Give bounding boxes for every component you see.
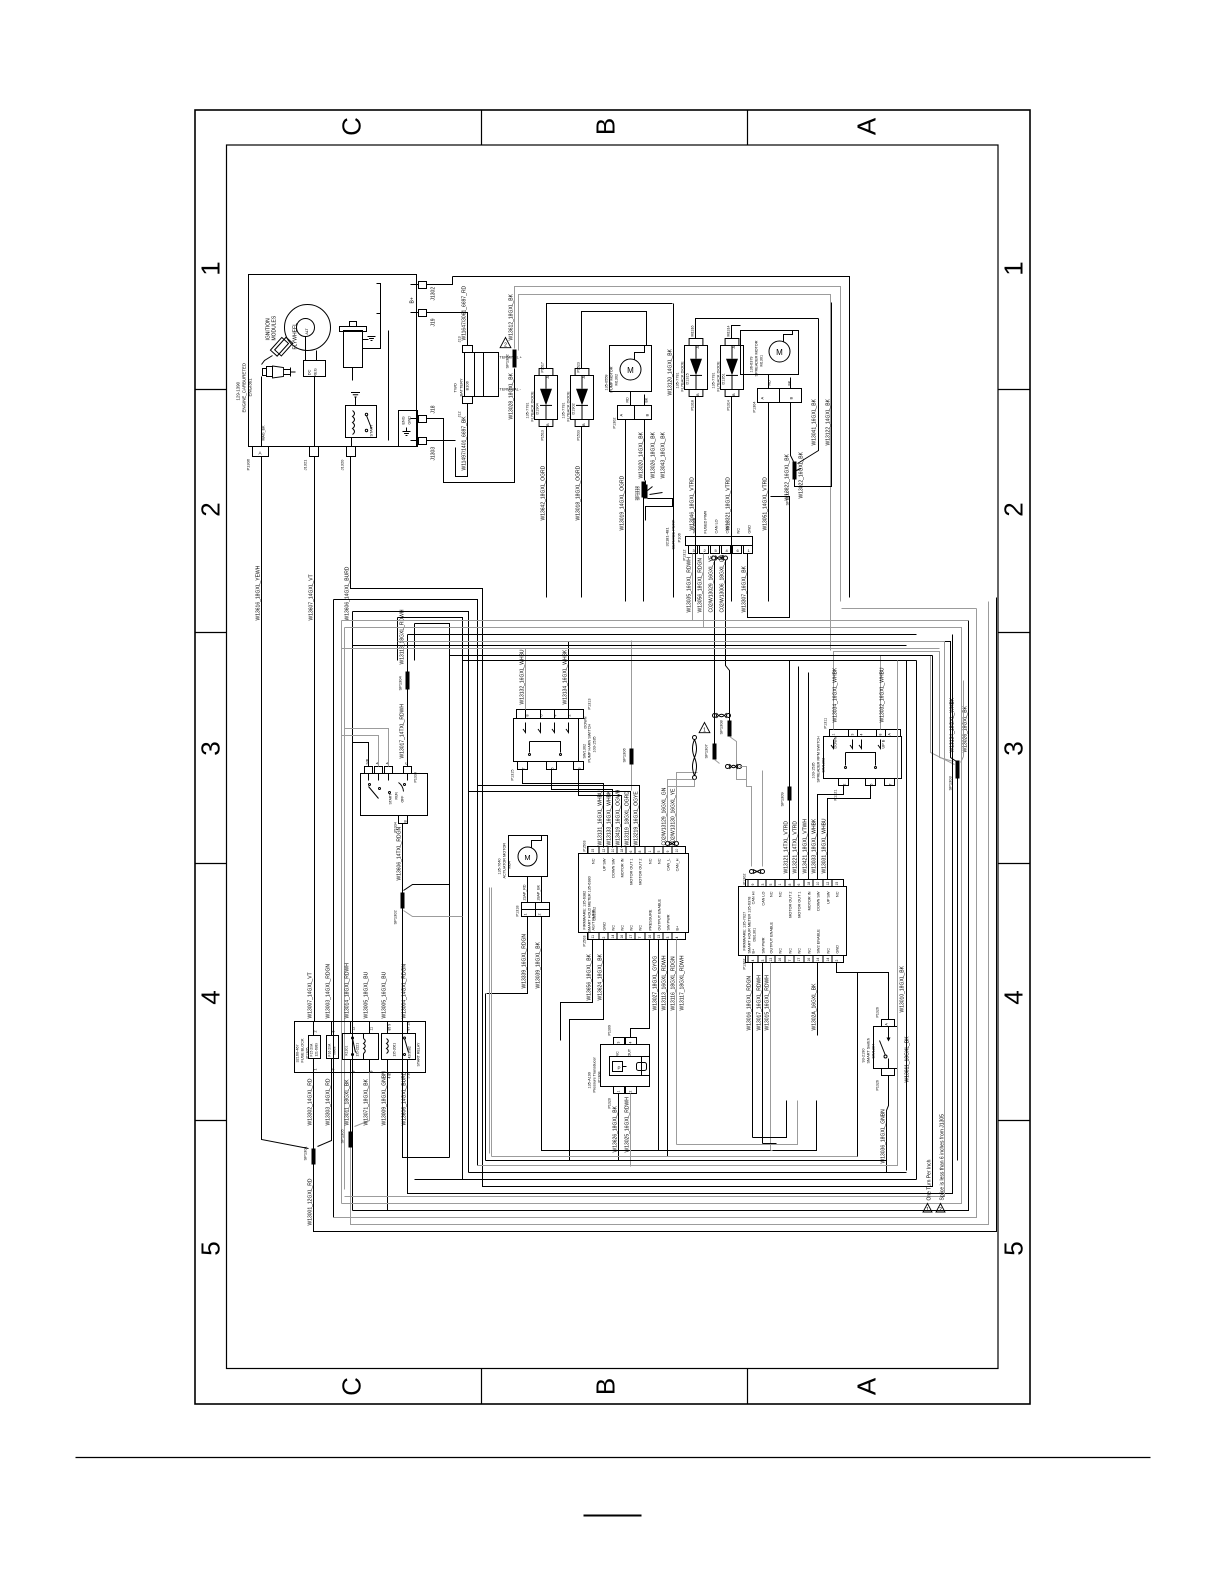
svg-text:W13607_14GXL_VT: W13607_14GXL_VT: [309, 574, 315, 620]
svg-text:16: 16: [807, 958, 811, 962]
svg-text:10: 10: [816, 882, 820, 886]
svg-text:W13071_18GXL_BK: W13071_18GXL_BK: [364, 1078, 370, 1125]
wire fuse2 down W13303_14GXL_RD to SP1301: [318, 1073, 332, 1147]
svg-text:5: 5: [551, 768, 555, 770]
svg-text:5: 5: [870, 784, 874, 786]
svg-text:7: 7: [788, 960, 792, 962]
svg-text:SP1303: SP1303: [948, 775, 953, 790]
svg-text:5: 5: [769, 884, 773, 886]
bus wire right vertical x976 gray: [334, 609, 977, 1218]
svg-text:3: 3: [851, 734, 855, 736]
wire below SP1311 loop W13122_14GXL_BK: [795, 303, 832, 487]
svg-text:129-1390: 129-1390: [236, 381, 241, 400]
splice SP1308: [728, 721, 732, 737]
svg-text:DOWN: DOWN: [834, 736, 838, 748]
svg-text:RUN: RUN: [395, 792, 399, 800]
svg-text:W13007_14GXL_VT: W13007_14GXL_VT: [308, 972, 314, 1018]
svg-text:135-7791: 135-7791: [562, 402, 566, 418]
svg-text:D1904: D1904: [536, 403, 540, 414]
svg-text:A: A: [581, 376, 586, 379]
flywheel circle: [285, 305, 331, 351]
SW1302 internal contacts: [523, 723, 526, 733]
wire SW1302 pin2 up W13134_16GXL_WHBK: [569, 642, 957, 762]
wire engine W13607_14GXL_VT down to fuse: [314, 457, 316, 1022]
bus wire black mid y645: [353, 645, 907, 647]
splice SP1302 on ignition switch feed: [401, 893, 405, 909]
wire SW1303 pin5 down to DB1301 UP SW: [828, 786, 871, 880]
svg-text:14: 14: [816, 958, 820, 962]
ignition switch top pins: [365, 767, 373, 774]
wire SW1303 pin8 up W13032_16GXL_WHBU: [881, 656, 955, 765]
bus wire black mid y660: [463, 660, 917, 662]
svg-text:M1316: M1316: [691, 326, 695, 337]
flyback diode D1902: [571, 376, 594, 420]
splice SP1307: [713, 744, 717, 760]
bus wire black mid y648: [415, 648, 940, 650]
svg-text:P1318: P1318: [516, 906, 520, 917]
twisted pair symbol small lower: [726, 765, 730, 769]
svg-text:MOTOR OUT 1: MOTOR OUT 1: [630, 859, 634, 885]
svg-text:W11647/3061_6697_RD: W11647/3061_6697_RD: [462, 285, 468, 340]
wire J18 engine ground down: [427, 369, 515, 483]
svg-text:C02/W13129_16GXL_GN: C02/W13129_16GXL_GN: [662, 787, 668, 845]
flyback diode D1904: [535, 376, 558, 420]
drawing sheet inner border: [227, 145, 999, 1369]
svg-text:D1315: D1315: [686, 373, 690, 384]
wire DB1302 B+ down W13116_18GXL_RDGN: [676, 940, 678, 1145]
fuse F15 20A: [309, 1036, 321, 1059]
svg-text:P1318: P1318: [691, 400, 695, 410]
svg-text:W13039_18GXL_BK: W13039_18GXL_BK: [536, 941, 542, 988]
svg-text:4: 4: [675, 937, 679, 939]
wire K1301 pin8 down W13011_18GXL_BK: [350, 1073, 352, 1132]
svg-text:SP1305: SP1305: [340, 1128, 345, 1143]
wire ignition module to spark plug and pin: [262, 356, 273, 365]
svg-text:Pressure Transducer: Pressure Transducer: [593, 1057, 597, 1093]
svg-text:16: 16: [778, 958, 782, 962]
svg-text:136-6379: 136-6379: [750, 356, 754, 372]
svg-text:OUTPUT ENABLE: OUTPUT ENABLE: [770, 921, 774, 953]
svg-text:W13051_14GXL_VTRD: W13051_14GXL_VTRD: [763, 477, 769, 531]
fuse block P1305 outline: [295, 1022, 426, 1073]
svg-text:C02/W13130_16GXL_YE: C02/W13130_16GXL_YE: [671, 788, 677, 846]
wire P1302-B down W13020_14GXL_BK: [644, 420, 646, 481]
svg-text:W13011_18GXL_BK: W13011_18GXL_BK: [345, 1079, 351, 1126]
svg-text:28AP_BK: 28AP_BK: [537, 884, 541, 900]
svg-text:13: 13: [769, 958, 773, 962]
splice SP1309: [788, 787, 792, 801]
wire DB1301 GND to SW1304 W13010_18GXL_BK: [837, 963, 889, 1020]
svg-text:M04: M04: [508, 861, 512, 868]
svg-text:5: 5: [999, 1241, 1029, 1255]
svg-text:32160-467: 32160-467: [296, 1044, 300, 1062]
ignition switch bottom pin M: [399, 816, 408, 824]
svg-text:W13302_14GXL_RD: W13302_14GXL_RD: [308, 1078, 314, 1125]
wire below SP1301 W13001_12GXL_RD: [314, 598, 997, 1232]
svg-text:NC: NC: [612, 925, 616, 931]
svg-text:9: 9: [370, 1071, 374, 1073]
svg-text:SW PWR: SW PWR: [667, 914, 671, 930]
wire start relay pin5 down W13606_14GXL_BURD: [408, 635, 953, 1194]
svg-text:W13134_16GXL_WHBK: W13134_16GXL_WHBK: [563, 649, 569, 704]
svg-text:B+: B+: [410, 297, 416, 303]
svg-text:K1301: K1301: [345, 1046, 349, 1056]
svg-text:P1315: P1315: [511, 770, 515, 781]
svg-text:2: 2: [939, 1207, 942, 1213]
wire D1351 anode up: [732, 326, 741, 339]
svg-text:6: 6: [540, 715, 544, 717]
svg-text:3: 3: [761, 884, 765, 886]
svg-text:135-7640: 135-7640: [498, 858, 502, 874]
svg-text:TERMINAL +: TERMINAL +: [500, 356, 523, 360]
svg-text:A: A: [731, 346, 736, 349]
svg-text:SMART Switch: SMART Switch: [867, 1038, 871, 1063]
svg-text:GND: GND: [748, 525, 752, 534]
svg-text:B: B: [789, 397, 794, 400]
svg-text:M: M: [776, 348, 783, 357]
svg-text:SP1308: SP1308: [719, 719, 724, 734]
wire P1318-2 down W13039_18GXL_BK: [542, 917, 641, 1151]
pump motor M1302: [610, 346, 652, 392]
svg-text:W13626_18GXL_BK: W13626_18GXL_BK: [613, 1105, 619, 1152]
wire W13022_16GXL_BK at SP1311: [797, 469, 801, 471]
SW1303 internal contacts: [831, 740, 834, 749]
svg-text:B+: B+: [676, 925, 680, 931]
svg-text:P1517: P1517: [541, 362, 545, 372]
svg-text:4: 4: [999, 990, 1029, 1004]
bus wire gray mid y620: [342, 620, 969, 622]
footer page dash: [584, 1515, 642, 1517]
svg-text:P106: P106: [677, 532, 682, 542]
svg-text:7: 7: [889, 784, 893, 786]
wire J1303 down: [427, 440, 456, 442]
svg-text:4: 4: [860, 734, 864, 736]
svg-text:J1321: J1321: [303, 459, 308, 471]
ground symbol above start solenoid: [351, 392, 360, 394]
wire DB1302 pin11 down W13656_18GXL_BK: [561, 940, 593, 1041]
svg-text:W13043_18GXL_BK: W13043_18GXL_BK: [661, 431, 667, 478]
wire SP1302 second branch: [519, 295, 831, 651]
svg-text:4: 4: [629, 1042, 633, 1044]
SW1302 top pin row: [517, 710, 584, 719]
svg-text:A: A: [619, 414, 624, 417]
wire D1904 cathode down W13642_18GXL_OGRD: [546, 427, 548, 598]
smart switch SW1304 box: [874, 1027, 898, 1069]
wire engine W13616_18GXL_YEWH down to SP1301: [262, 457, 309, 1149]
svg-text:17: 17: [629, 935, 633, 939]
svg-text:ALT: ALT: [305, 328, 309, 335]
splice SP1316 and loop: [644, 485, 648, 499]
svg-text:5: 5: [196, 1241, 226, 1255]
svg-text:SW1303: SW1303: [822, 758, 826, 773]
svg-text:W13041_16GXL_BK: W13041_16GXL_BK: [812, 398, 818, 445]
wire P1318-1 down W13339_16GXL_RDGN: [487, 917, 528, 994]
svg-text:W13011_18GXL_BK: W13011_18GXL_BK: [905, 1036, 911, 1083]
svg-text:7: 7: [522, 768, 526, 770]
svg-text:4: 4: [554, 715, 558, 717]
svg-text:12: 12: [352, 1027, 356, 1031]
svg-text:135-7791: 135-7791: [676, 372, 680, 388]
actuator motor wires to connector: [527, 877, 529, 903]
svg-text:C: C: [337, 1377, 367, 1396]
svg-text:6: 6: [629, 851, 633, 853]
svg-text:BATTERY: BATTERY: [459, 378, 464, 396]
DB1301 top pin row: [746, 880, 844, 887]
svg-text:A: A: [852, 117, 882, 135]
wire to SP1304 W13113_18GXL_RDWH: [407, 635, 409, 672]
wire DB1302 SW PWR down W13113_16GXL_RDWH: [667, 940, 669, 1157]
svg-text:18: 18: [807, 882, 811, 886]
svg-text:W13005_16GXL_BU: W13005_16GXL_BU: [382, 971, 388, 1018]
svg-text:PUMP HARN SWITCH: PUMP HARN SWITCH: [588, 723, 592, 762]
svg-text:14: 14: [611, 935, 615, 939]
svg-text:GND: GND: [603, 922, 607, 931]
wire D1902 anode to bus y311: [582, 312, 647, 369]
svg-text:W13612_18GXL_BK: W13612_18GXL_BK: [509, 293, 515, 340]
svg-text:1: 1: [778, 884, 782, 886]
wire DB1302 MOTOR OUT 1 up W13119_18GXL_OGRD: [469, 792, 631, 847]
svg-text:B: B: [731, 393, 736, 396]
svg-text:CAN_H: CAN_H: [676, 858, 680, 871]
svg-text:C: C: [337, 117, 367, 136]
SW1303 bottom pins: [839, 779, 849, 786]
bus wire gray mid y627: [342, 628, 962, 1204]
ignition switch box: [361, 774, 428, 816]
svg-text:135-0559: 135-0559: [605, 374, 609, 390]
flyback diode D1315: [685, 346, 708, 390]
svg-text:W13219_16GXL_OGYE: W13219_16GXL_OGYE: [634, 791, 640, 846]
svg-text:NC: NC: [779, 948, 783, 954]
wire engine W13606_14GXL_BURD down and right: [351, 457, 933, 1187]
svg-text:Splice is less than 6 inches f: Splice is less than 6 inches from J1305: [940, 1114, 946, 1201]
svg-text:W13003_14GXL_RDGN: W13003_14GXL_RDGN: [326, 964, 332, 1019]
splice SP1306: [630, 749, 634, 765]
svg-text:2: 2: [999, 502, 1029, 516]
svg-text:NC: NC: [827, 948, 831, 954]
svg-text:MOTOR IN: MOTOR IN: [808, 891, 812, 910]
warning triangle 1 CAN harness: [699, 723, 710, 733]
svg-text:1: 1: [926, 1207, 929, 1213]
svg-text:3: 3: [196, 741, 226, 755]
svg-text:NC: NC: [592, 858, 596, 864]
wire SW1303 pin1 up W13034_16GXL_WHBK: [834, 652, 954, 762]
wire SW1302 pin7 to DB1302 W13131_16GXL_WHBU: [523, 770, 604, 848]
svg-text:10: 10: [611, 849, 615, 853]
svg-text:A: A: [259, 451, 262, 456]
DB1302 CAN_L CAN_H bubbles and twist: [666, 842, 670, 846]
wire start solenoid to J1320: [351, 438, 353, 447]
svg-text:A: A: [695, 346, 700, 349]
actuator connector P1318: [522, 903, 550, 917]
bus wire gray mid y641: [345, 642, 945, 1197]
svg-text:M: M: [627, 366, 634, 375]
wire bundle nest second: [353, 612, 469, 1173]
bus bottom gray y1156: [492, 1156, 858, 1158]
wire DB1302 MOTOR OUT 2 up W13219_16GXL_OGYE: [478, 786, 640, 847]
svg-text:B106: B106: [465, 380, 470, 390]
grid tick row divider left y1120: [195, 1120, 227, 1122]
wire P1308 pin2 down W13025_16GXL_RDWH: [630, 1094, 632, 1167]
P1308 internals: [610, 1057, 650, 1076]
splice SP1305: [349, 1132, 353, 1148]
engine bottom pin J1320: [347, 447, 356, 457]
wires ignition top pins into nest: [353, 743, 369, 767]
svg-text:PRESSURE: PRESSURE: [649, 909, 653, 930]
svg-text:135-2221: 135-2221: [356, 1043, 360, 1057]
svg-text:1: 1: [832, 734, 836, 736]
svg-text:FLYWHEEL: FLYWHEEL: [293, 323, 299, 350]
svg-text:W13035_16GXL_RDWH: W13035_16GXL_RDWH: [687, 557, 693, 613]
svg-text:CAN HI: CAN HI: [752, 892, 756, 905]
svg-text:M: M: [524, 853, 530, 862]
wire DB1301 OUTPUT ENABLE down W13015_16GXL_RDWH: [770, 963, 772, 1151]
svg-text:2: 2: [538, 914, 542, 916]
svg-text:W13032_16GXL_WHBU: W13032_16GXL_WHBU: [880, 667, 886, 722]
alternator ALT circle: [297, 319, 315, 337]
svg-text:W13113_16GXL_RDWH: W13113_16GXL_RDWH: [662, 955, 668, 1010]
DB1301 bottom pin row: [746, 956, 844, 963]
svg-text:M1301: M1301: [760, 355, 764, 367]
svg-text:J18: J18: [431, 405, 437, 413]
grid tick row divider right y389: [998, 389, 1030, 391]
svg-text:MAIN: MAIN: [333, 1046, 337, 1055]
spreader rpm switch SW1303 box: [824, 737, 902, 779]
svg-text:MODULES: MODULES: [272, 315, 278, 340]
wire service pin1 W13307_16GXL_BK: [748, 497, 790, 618]
svg-text:NC: NC: [658, 858, 662, 864]
svg-text:16: 16: [620, 935, 624, 939]
svg-text:W13307_16GXL_BK: W13307_16GXL_BK: [742, 565, 748, 612]
svg-text:PUMP MOTOR: PUMP MOTOR: [610, 366, 614, 392]
svg-text:OUTPUT ENABLE: OUTPUT ENABLE: [658, 898, 662, 930]
wires CAN twisted area: [714, 711, 716, 744]
svg-text:13: 13: [657, 935, 661, 939]
fuse F16 20A MAIN: [327, 1036, 339, 1059]
svg-text:SP1309: SP1309: [780, 791, 785, 806]
battery TWO BATTERY B106: [465, 353, 499, 397]
svg-text:P1326: P1326: [876, 1080, 880, 1090]
svg-text:START: START: [389, 794, 393, 805]
svg-text:W13419_16GXL_OGWH: W13419_16GXL_OGWH: [616, 789, 622, 845]
svg-text:SP1311: SP1311: [785, 491, 790, 506]
wire bundle nest around ignition switch outer: [334, 600, 478, 1166]
ground symbol at fuel solenoid: [363, 339, 369, 341]
SW1304 top pin: [882, 1020, 895, 1027]
svg-text:DB1301: DB1301: [753, 928, 757, 942]
SW1302 bottom pins: [518, 762, 528, 770]
wire DC regulator to pin J1321: [314, 377, 316, 447]
svg-text:DOWN SW: DOWN SW: [612, 858, 616, 878]
wire bundle nest gray pair: [341, 621, 343, 1204]
svg-text:UP SW: UP SW: [603, 858, 607, 871]
wire W13120_14GXL_BK vertical: [673, 304, 675, 598]
svg-text:2: 2: [196, 502, 226, 516]
svg-text:W13303_14GXL_RD: W13303_14GXL_RD: [326, 1078, 332, 1125]
ignition switch internals: [368, 774, 370, 781]
note 2 Splice is less than 6 inches from J1305: [936, 1204, 945, 1213]
wire P1302-A down W13019_14GXL_OGRD: [625, 420, 627, 602]
bus bottom black y1172: [469, 1172, 907, 1174]
svg-text:P1314: P1314: [727, 400, 731, 410]
pump motor connector P1302: [618, 406, 652, 420]
wire DB1301 SW PWR down W13017_16GXL_RDWH: [762, 963, 764, 1144]
label W13026_18GXL_BK at SP1318: [648, 487, 653, 491]
svg-text:START RELAY: START RELAY: [417, 1042, 421, 1067]
P1308 bottom pins: [614, 1087, 625, 1094]
svg-text:TWO: TWO: [453, 383, 458, 392]
bus bottom black y1179: [415, 1179, 917, 1181]
svg-text:NC: NC: [798, 948, 802, 954]
svg-text:4: 4: [196, 990, 226, 1004]
svg-text:9: 9: [751, 884, 755, 886]
svg-text:W13015_16GXL_RDWH: W13015_16GXL_RDWH: [765, 975, 771, 1031]
svg-text:W13624_18GXL_BK: W13624_18GXL_BK: [598, 953, 604, 1000]
svg-text:B: B: [591, 1378, 621, 1395]
svg-text:D1902: D1902: [572, 403, 576, 414]
svg-text:W13028_18GXL_BK: W13028_18GXL_BK: [509, 372, 515, 419]
splice SP1303: [956, 761, 960, 779]
svg-text:W13421_18GXL_VTWH: W13421_18GXL_VTWH: [803, 819, 809, 874]
splice joins to wire nest: [404, 885, 450, 891]
svg-text:3: 3: [761, 960, 765, 962]
wire DB1302 OUTPUT ENABLE down W13027_18GXL_GYOG: [658, 940, 660, 1151]
svg-text:W13036_18GXL_GNBN: W13036_18GXL_GNBN: [881, 1109, 887, 1164]
svg-text:SERVICE PORT: SERVICE PORT: [671, 519, 676, 549]
svg-text:P1503: P1503: [583, 936, 587, 947]
twisted pair symbol CAN to SP1308: [713, 714, 717, 718]
svg-text:8: 8: [638, 851, 642, 853]
svg-text:CAN_L: CAN_L: [667, 859, 671, 871]
svg-text:5: 5: [657, 851, 661, 853]
svg-text:OFF: OFF: [401, 796, 405, 803]
svg-text:FLYBACK DIODE: FLYBACK DIODE: [567, 391, 571, 422]
svg-text:SP1302: SP1302: [393, 909, 398, 924]
svg-text:93-2190: 93-2190: [862, 1049, 866, 1063]
battery terminal J13: [463, 346, 473, 353]
svg-text:GND: GND: [836, 945, 840, 954]
svg-text:SW1304: SW1304: [872, 1044, 876, 1059]
svg-text:NC: NC: [621, 925, 625, 931]
svg-text:W13026_18GXL_BK: W13026_18GXL_BK: [651, 431, 657, 478]
spreader motor M1301: [741, 331, 799, 375]
svg-text:NC: NC: [630, 925, 634, 931]
wire SW1304 down W13036_18GXL_GNBN: [887, 1076, 889, 1173]
svg-text:DC: DC: [307, 370, 312, 376]
svg-text:F15 20A: F15 20A: [310, 1043, 314, 1057]
svg-text:CAN HI: CAN HI: [726, 521, 730, 534]
DB1302 top pin row: [588, 847, 686, 854]
svg-text:W13005_18GXL_BU: W13005_18GXL_BU: [364, 971, 370, 1018]
svg-text:SW1302: SW1302: [583, 744, 587, 759]
bus bottom black y1210 to x968: [353, 1210, 969, 1212]
flyback diode D1351: [721, 346, 744, 390]
svg-text:W13033_18GXL_WHBK: W13033_18GXL_WHBK: [812, 818, 818, 873]
bus right verticals upper: [897, 661, 899, 1121]
svg-text:FUSED PWR: FUSED PWR: [704, 510, 708, 533]
svg-text:MOTOR OUT 2: MOTOR OUT 2: [789, 892, 793, 918]
svg-text:42/3082: 42/3082: [408, 1046, 412, 1058]
wire DB1301 B+ down W13016_18GXL_RDGN: [752, 963, 754, 1138]
svg-text:17: 17: [797, 958, 801, 962]
pressure transducer P1308 box: [601, 1045, 650, 1087]
svg-text:P1313: P1313: [588, 699, 592, 710]
svg-text:8: 8: [526, 715, 530, 717]
svg-text:8: 8: [352, 1071, 356, 1073]
svg-text:P1523: P1523: [577, 362, 581, 372]
svg-text:10: 10: [675, 849, 679, 853]
wire P1308 pin1 down W13626_18GXL_BK: [618, 1094, 620, 1161]
wire bundle nest inner fourth: [415, 624, 450, 1158]
